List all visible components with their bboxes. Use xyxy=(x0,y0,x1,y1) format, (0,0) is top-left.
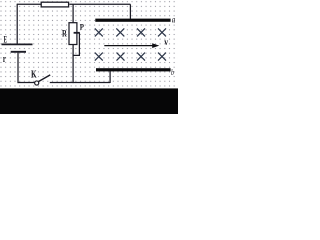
wire: bottom left to switch xyxy=(18,82,35,84)
wire: rheostat bottom down to bottom wire xyxy=(72,45,74,84)
field cross 1,4 xyxy=(158,28,166,36)
field cross 1,2 xyxy=(116,28,124,36)
magnetic field crosses row 1 (B into page) xyxy=(95,28,166,60)
svg-text:E: E xyxy=(4,35,7,45)
svg-text:a: a xyxy=(172,14,176,24)
wire: left vertical down to battery xyxy=(16,4,18,44)
field cross 1,1 xyxy=(95,28,103,36)
svg-text:b: b xyxy=(171,68,174,77)
wire: top horizontal from resistor to right drop xyxy=(69,3,130,5)
rail a (top conducting rail) xyxy=(95,19,170,22)
rail b (bottom conducting rail) xyxy=(96,68,171,71)
wire: bottom right from switch to riser xyxy=(50,82,110,84)
svg-text:P: P xyxy=(80,21,84,31)
field cross 2,4 xyxy=(158,53,166,61)
rheostat slider arm xyxy=(74,32,80,34)
field cross 2,3 xyxy=(137,53,145,61)
black censor bar at bottom xyxy=(0,88,178,114)
wire: top horizontal from battery to resistor xyxy=(17,3,41,5)
field cross 2,2 xyxy=(117,53,125,61)
dotted grid paper xyxy=(0,0,178,114)
switch K blade (open) xyxy=(38,75,50,82)
wire: below battery down to bottom wire xyxy=(17,53,19,84)
svg-text:v: v xyxy=(164,38,168,48)
battery E short plate xyxy=(11,51,26,53)
battery E long plate xyxy=(2,43,33,45)
svg-text:r: r xyxy=(3,54,6,65)
background paper xyxy=(0,0,178,114)
resistor R1 (fixed resistor box on top wire) xyxy=(41,2,68,7)
wire: drop from top wire to rail a xyxy=(129,4,131,19)
wire: slider connection down and left xyxy=(73,33,79,56)
wire: riser up to bottom rail xyxy=(109,71,111,84)
wire: drop from top wire to rheostat xyxy=(72,4,74,23)
svg-text:K: K xyxy=(31,69,37,80)
svg-text:R: R xyxy=(62,30,67,40)
field cross 2,1 xyxy=(95,53,103,61)
field cross 1,3 xyxy=(137,28,145,36)
rheostat R box xyxy=(69,23,77,45)
switch K pivot circle xyxy=(35,81,39,85)
velocity arrow v xyxy=(104,43,159,48)
